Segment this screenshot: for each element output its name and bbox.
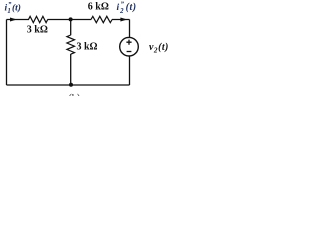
svg-text:i”1(t): i”1(t)	[5, 2, 21, 15]
source V2 circle	[120, 37, 139, 56]
current arrow i2	[120, 18, 127, 22]
source V2 plus sign	[126, 40, 131, 45]
source V2 minus sign	[127, 51, 132, 53]
svg-text:6 kΩ: 6 kΩ	[88, 2, 109, 13]
wire: right vertical below source	[129, 56, 131, 85]
wire: middle branch bottom stub	[70, 54, 72, 85]
wire: right vertical above source	[129, 20, 131, 38]
wire: bottom horizontal	[7, 84, 130, 86]
svg-text:3 kΩ: 3 kΩ	[77, 42, 98, 53]
resistor R2 6 kOhm (top right zigzag)	[91, 16, 112, 22]
current arrow i1	[10, 18, 17, 22]
node: bottom junction dot	[69, 83, 73, 87]
svg-text:i”2(t): i”2(t)	[117, 2, 137, 15]
node: top junction dot	[69, 17, 73, 21]
wire: left vertical branch	[6, 20, 8, 86]
svg-text:(b): (b)	[69, 93, 81, 96]
wire: top middle segment	[48, 19, 92, 21]
wire: top right segment to corner	[112, 19, 130, 21]
svg-text:v2(t): v2(t)	[149, 42, 169, 55]
resistor R3 3 kOhm (middle vertical zigzag)	[67, 35, 75, 54]
wire: middle branch top stub	[70, 20, 72, 36]
wire: top-left segment	[7, 19, 30, 21]
resistor R1 3 kOhm (top left zigzag)	[29, 16, 48, 22]
svg-text:3 kΩ: 3 kΩ	[27, 25, 48, 36]
